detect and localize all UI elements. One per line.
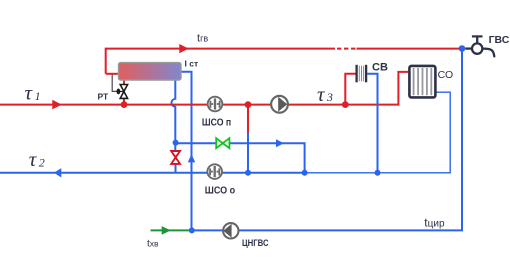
svg-text:τ: τ	[25, 80, 34, 104]
svg-text:tхв: tхв	[147, 239, 159, 250]
arrow right on t_hv	[162, 226, 171, 235]
arrow right on bypass line	[276, 139, 284, 147]
junction dot bypass start	[173, 140, 179, 146]
wire: thin tau2 extension to CO return riser	[305, 92, 450, 173]
CO radiator symbol	[409, 66, 435, 98]
arrow up on cold riser	[188, 154, 195, 162]
gray capillary line to RT actuator	[112, 75, 117, 92]
wire: mixing drop blue lower part	[247, 132, 249, 173]
wire: tau1 supply main, turning up into CO	[0, 72, 409, 105]
svg-text:τ: τ	[317, 82, 326, 106]
arrow right on t_gv	[179, 44, 188, 53]
valve makeup (red X) on drop to tau2	[171, 151, 180, 164]
wire: bypass line with green valve down to tau2	[176, 143, 305, 173]
arrow left on tau2	[54, 168, 61, 177]
svg-text:ЦНГВС: ЦНГВС	[242, 238, 269, 248]
wire: t_gv hot supply from HX to tap (solid + dashed break)	[106, 49, 335, 74]
junction dot bypass on tau2	[302, 170, 308, 176]
valve RT (bowtie vertical)	[120, 85, 127, 99]
pump CNGVS on circulation line	[223, 223, 238, 238]
svg-text:ГВС: ГВС	[489, 34, 510, 46]
svg-text:ШСО п: ШСО п	[202, 116, 231, 128]
svg-text:1: 1	[35, 89, 41, 103]
svg-text:3: 3	[326, 90, 333, 104]
junction dot on tau1 at SV branch	[342, 101, 349, 108]
svg-text:ШСО о: ШСО о	[205, 184, 235, 196]
junction dot SV return on tau2	[375, 170, 381, 176]
wire: blue stub below red makeup valve to tau2	[175, 164, 177, 173]
valve green on bypass	[216, 138, 229, 148]
wire: SV heater return riser	[367, 74, 377, 173]
svg-text:tгв: tгв	[197, 33, 208, 45]
wire: red branch to SV heater	[345, 74, 355, 105]
svg-text:I ст: I ст	[185, 59, 199, 69]
SV heater symbol	[357, 65, 367, 83]
wire: mixing drop red upper part	[247, 105, 249, 133]
svg-text:2: 2	[39, 156, 45, 170]
wire: red entry into HX left	[106, 73, 119, 75]
GVS tap (faucet)	[465, 36, 494, 56]
heat exchanger I stage	[119, 63, 182, 80]
junction dot at GVS tap	[459, 45, 466, 52]
arrow right on tau1	[52, 100, 61, 110]
junction dot on tau1 at mixing branch	[245, 101, 252, 108]
svg-text:tцир: tцир	[424, 215, 445, 229]
junction dot mixing on tau2	[245, 170, 251, 176]
junction dot on tau1 under RT	[121, 101, 128, 108]
junction dot cold water bottom	[189, 227, 195, 233]
orifice symbol ShSOo on tau2	[207, 164, 222, 179]
svg-text:СО: СО	[438, 69, 454, 81]
wire: bottom circulation line from junction to right riser up to GVS tap	[192, 49, 462, 231]
svg-text:τ: τ	[29, 147, 38, 171]
RT actuator	[117, 89, 121, 95]
wire: red stub HX bottom to RT valve	[123, 80, 125, 85]
wire: HX secondary drop with jump over tau1 (vert #1)	[171, 80, 175, 151]
wire: green cold water inlet t_hv	[151, 229, 192, 231]
wire: red stub RT valve to tau1	[123, 98, 125, 104]
svg-text:РТ: РТ	[98, 91, 110, 101]
svg-text:СВ: СВ	[372, 62, 388, 74]
orifice symbol ShSOp on tau1	[208, 97, 223, 112]
wire: tau2 return main with CO return riser	[0, 172, 305, 174]
wire: cold water riser from bottom junction to HX (vert #2)	[181, 72, 192, 231]
pump on tau1	[271, 96, 288, 113]
